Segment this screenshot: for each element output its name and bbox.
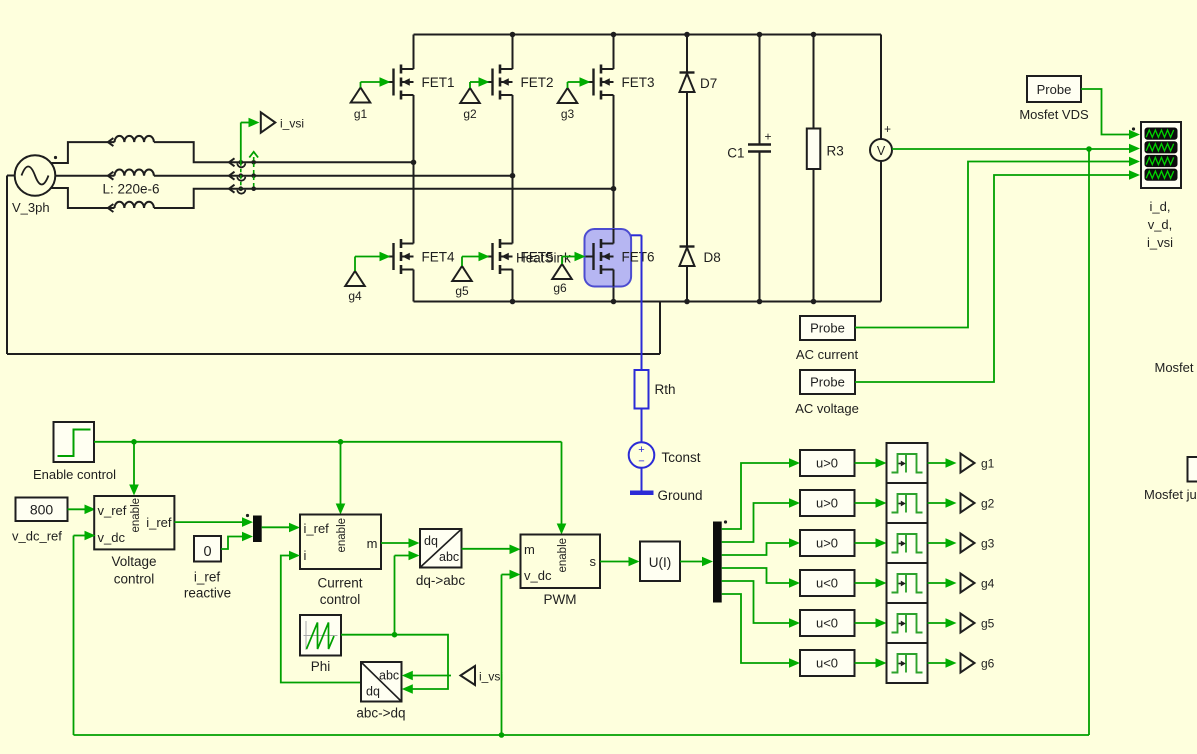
svg-text:v_dc: v_dc — [524, 568, 552, 583]
svg-text:u<0: u<0 — [816, 576, 838, 591]
svg-text:reactive: reactive — [184, 586, 231, 601]
svg-text:u<0: u<0 — [816, 616, 838, 631]
svg-text:PWM: PWM — [544, 592, 577, 607]
svg-text:g1: g1 — [354, 107, 368, 121]
svg-text:g4: g4 — [981, 577, 995, 591]
svg-text:g3: g3 — [981, 537, 995, 551]
svg-text:i: i — [304, 548, 307, 563]
svg-text:v_d,: v_d, — [1148, 217, 1173, 232]
svg-text:abc->dq: abc->dq — [356, 706, 405, 721]
svg-text:g2: g2 — [981, 497, 995, 511]
svg-text:abc: abc — [439, 550, 459, 564]
svg-text:enable: enable — [557, 538, 569, 573]
svg-text:g1: g1 — [981, 457, 995, 471]
svg-text:m: m — [367, 536, 378, 551]
svg-text:abc: abc — [379, 669, 399, 683]
svg-text:V_3ph: V_3ph — [12, 200, 50, 215]
svg-text:enable: enable — [336, 518, 348, 553]
svg-text:control: control — [320, 592, 361, 607]
svg-text:dq: dq — [366, 685, 380, 699]
svg-text:u>0: u>0 — [816, 536, 838, 551]
svg-text:Probe: Probe — [810, 375, 845, 390]
svg-text:m: m — [524, 542, 535, 557]
svg-text:R3: R3 — [827, 144, 844, 159]
svg-text:−: − — [638, 456, 644, 468]
svg-text:control: control — [114, 572, 155, 587]
svg-text:v_ref: v_ref — [98, 503, 127, 518]
svg-text:Probe: Probe — [1037, 82, 1072, 97]
svg-text:enable: enable — [130, 498, 142, 533]
svg-text:+: + — [884, 122, 891, 136]
svg-text:L: 220e-6: L: 220e-6 — [103, 182, 160, 197]
svg-text:Rth: Rth — [655, 382, 676, 397]
svg-text:AC voltage: AC voltage — [795, 401, 859, 416]
svg-text:g5: g5 — [455, 284, 469, 298]
svg-text:g6: g6 — [553, 281, 567, 295]
svg-text:V: V — [877, 144, 886, 158]
svg-text:D7: D7 — [700, 76, 717, 91]
svg-text:+: + — [765, 130, 772, 144]
svg-text:Current: Current — [317, 576, 362, 591]
svg-text:AC current: AC current — [796, 347, 859, 362]
svg-text:Probe: Probe — [810, 321, 845, 336]
svg-text:i_vsi: i_vsi — [479, 670, 503, 684]
svg-text:C1: C1 — [727, 146, 744, 161]
svg-text:i_vsi: i_vsi — [280, 117, 304, 131]
svg-text:dq->abc: dq->abc — [416, 573, 465, 588]
svg-text:U(I): U(I) — [649, 555, 672, 570]
svg-text:i_ref: i_ref — [194, 570, 221, 585]
svg-text:v_dc_ref: v_dc_ref — [12, 529, 62, 544]
svg-text:FET4: FET4 — [422, 250, 455, 265]
svg-text:Ground: Ground — [658, 488, 703, 503]
svg-text:i_ref: i_ref — [146, 515, 172, 530]
svg-text:u>0: u>0 — [816, 456, 838, 471]
svg-text:g4: g4 — [348, 289, 362, 303]
svg-text:FET3: FET3 — [622, 75, 655, 90]
svg-text:0: 0 — [203, 544, 211, 560]
svg-text:dq: dq — [424, 534, 438, 548]
svg-text:Phi: Phi — [311, 659, 331, 674]
svg-text:Mosfet junction: Mosfet junction — [1144, 487, 1197, 502]
svg-text:g2: g2 — [463, 107, 477, 121]
svg-text:v_dc: v_dc — [98, 530, 126, 545]
svg-text:g6: g6 — [981, 657, 995, 671]
svg-text:800: 800 — [30, 502, 54, 518]
svg-text:i_ref: i_ref — [304, 521, 330, 536]
svg-text:u<0: u<0 — [816, 656, 838, 671]
svg-text:Voltage: Voltage — [111, 554, 156, 569]
svg-text:i_d,: i_d, — [1150, 199, 1171, 214]
svg-text:s: s — [590, 554, 597, 569]
svg-text:i_vsi: i_vsi — [1147, 235, 1173, 250]
svg-text:Enable control: Enable control — [33, 467, 116, 482]
svg-text:FET6: FET6 — [622, 250, 655, 265]
svg-text:g3: g3 — [561, 107, 575, 121]
svg-text:FET1: FET1 — [422, 75, 455, 90]
svg-text:Mosfet VDS: Mosfet VDS — [1019, 107, 1089, 122]
svg-text:FET2: FET2 — [521, 75, 554, 90]
svg-text:Tconst: Tconst — [662, 450, 701, 465]
svg-text:u>0: u>0 — [816, 496, 838, 511]
svg-text:Mosfet temp: Mosfet temp — [1155, 360, 1197, 375]
svg-text:D8: D8 — [704, 250, 721, 265]
svg-text:+: + — [638, 444, 644, 456]
svg-text:g5: g5 — [981, 617, 995, 631]
